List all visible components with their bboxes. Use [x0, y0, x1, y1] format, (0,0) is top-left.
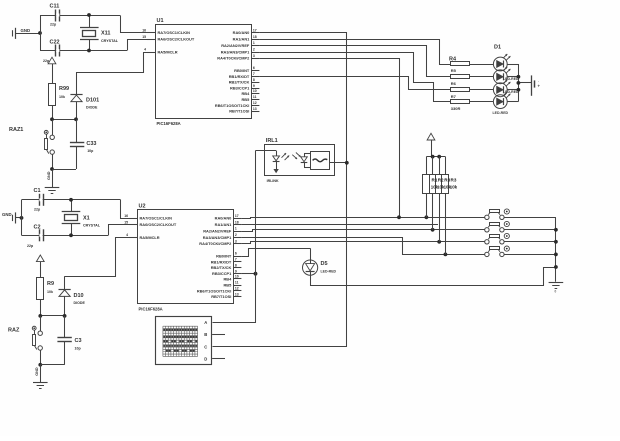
svg-text:13: 13: [253, 107, 257, 111]
svg-text:11: 11: [253, 95, 257, 99]
svg-text:RA2/AN2/VREF: RA2/AN2/VREF: [203, 229, 232, 234]
svg-text:7: 7: [253, 72, 255, 76]
svg-text:RAZ: RAZ: [8, 328, 20, 334]
svg-text:RB2/TX/CK: RB2/TX/CK: [229, 80, 250, 85]
svg-text:R9: R9: [47, 281, 54, 287]
svg-text:RB1/RX/DT: RB1/RX/DT: [211, 259, 232, 264]
svg-text:RAZ1: RAZ1: [9, 127, 23, 133]
svg-text:R2: R2: [438, 177, 444, 182]
svg-text:10k: 10k: [59, 95, 65, 99]
svg-text:15: 15: [142, 35, 146, 39]
svg-text:10: 10: [235, 275, 239, 279]
svg-text:RA1/AN1: RA1/AN1: [215, 222, 232, 227]
svg-text:RA3/AN3/CMP1: RA3/AN3/CMP1: [221, 50, 250, 55]
svg-text:LED-RED: LED-RED: [503, 90, 519, 94]
svg-text:12: 12: [235, 287, 239, 291]
svg-text:1: 1: [253, 41, 255, 45]
svg-text:R5: R5: [451, 68, 457, 73]
svg-text:IRL1: IRL1: [266, 138, 278, 144]
svg-text:4: 4: [144, 48, 146, 52]
svg-text:RB6/T1OSO/T1CKI: RB6/T1OSO/T1CKI: [215, 103, 249, 108]
svg-text:22p: 22p: [50, 23, 57, 27]
svg-text:16: 16: [124, 214, 128, 218]
svg-text:12: 12: [253, 101, 257, 105]
svg-text:R6: R6: [451, 81, 457, 86]
svg-text:LED-RED: LED-RED: [321, 270, 337, 274]
svg-text:RA6/OSC2/CLKOUT: RA6/OSC2/CLKOUT: [158, 37, 195, 42]
svg-text:R7: R7: [451, 94, 457, 99]
svg-text:RB6/T1OSO/T1CKI: RB6/T1OSO/T1CKI: [197, 288, 231, 293]
svg-text:GND: GND: [35, 367, 39, 376]
svg-text:.: .: [538, 78, 539, 83]
svg-text:8: 8: [253, 78, 255, 82]
svg-text:17: 17: [235, 214, 239, 218]
svg-text:330R: 330R: [451, 106, 461, 111]
svg-text:RB0/INT: RB0/INT: [234, 68, 250, 73]
svg-text:IRLINK: IRLINK: [267, 179, 279, 183]
svg-text:C: C: [204, 345, 207, 350]
svg-text:18: 18: [235, 220, 239, 224]
svg-text:1: 1: [235, 227, 237, 231]
svg-text:X1: X1: [83, 215, 90, 221]
svg-text:D5: D5: [321, 261, 328, 267]
svg-text:RB1/RX/DT: RB1/RX/DT: [229, 74, 250, 79]
svg-text:9: 9: [253, 84, 255, 88]
svg-text:10p: 10p: [87, 149, 94, 153]
svg-text:RB7/T1OSI: RB7/T1OSI: [211, 294, 231, 299]
svg-text:3: 3: [253, 54, 255, 58]
svg-text:C22: C22: [50, 40, 60, 46]
svg-text:GND: GND: [21, 28, 31, 33]
svg-text:RA7/OSC1/CLKIN: RA7/OSC1/CLKIN: [158, 30, 191, 35]
svg-text:RA6/OSC2/CLKOUT: RA6/OSC2/CLKOUT: [140, 222, 177, 227]
svg-text:C1: C1: [34, 188, 41, 194]
svg-text:RA5/MCLR: RA5/MCLR: [158, 50, 178, 55]
svg-text:RA2/AN2/VREF: RA2/AN2/VREF: [221, 43, 250, 48]
svg-text:13: 13: [235, 292, 239, 296]
svg-text:15: 15: [124, 220, 128, 224]
svg-text:17: 17: [253, 28, 257, 32]
svg-text:LED-RED: LED-RED: [503, 77, 519, 81]
svg-text:9: 9: [235, 269, 237, 273]
svg-text:11: 11: [235, 281, 239, 285]
svg-text:DIODE: DIODE: [86, 105, 98, 109]
svg-text:RB4: RB4: [242, 91, 251, 96]
svg-text:RB4: RB4: [224, 276, 233, 281]
svg-text:DIODE: DIODE: [74, 301, 86, 305]
svg-text:10: 10: [253, 89, 257, 93]
svg-text:RA7/OSC1/CLKIN: RA7/OSC1/CLKIN: [140, 216, 173, 221]
svg-text:16: 16: [142, 28, 146, 32]
svg-text:C11: C11: [50, 4, 60, 10]
svg-text:X11: X11: [101, 31, 110, 37]
svg-text:GND: GND: [2, 212, 12, 217]
svg-text:RB5: RB5: [224, 283, 233, 288]
svg-text:6: 6: [253, 66, 255, 70]
svg-text:GND: GND: [47, 171, 51, 180]
svg-text:RA1/AN1: RA1/AN1: [233, 37, 250, 42]
svg-text:22p: 22p: [27, 244, 34, 248]
svg-text:3: 3: [235, 239, 237, 243]
svg-text:RA0/AN0: RA0/AN0: [215, 216, 232, 221]
svg-text:CRYSTAL: CRYSTAL: [101, 39, 119, 43]
svg-text:B: B: [204, 332, 207, 337]
svg-text:U1: U1: [157, 18, 164, 24]
svg-text:18: 18: [253, 35, 257, 39]
svg-text:R99: R99: [59, 86, 69, 92]
svg-text:10p: 10p: [75, 346, 82, 350]
svg-text:D10: D10: [74, 293, 84, 299]
svg-text:8: 8: [235, 263, 237, 267]
svg-text:RB5: RB5: [242, 97, 251, 102]
svg-text:C3: C3: [75, 338, 82, 344]
svg-text:22p: 22p: [34, 207, 41, 211]
svg-text:CRYSTAL: CRYSTAL: [83, 224, 101, 228]
svg-text:R3: R3: [451, 177, 457, 182]
svg-text:2: 2: [235, 233, 237, 237]
svg-text:D: D: [204, 356, 207, 361]
svg-text:RB7/T1OSI: RB7/T1OSI: [229, 109, 249, 114]
svg-text:10k: 10k: [47, 290, 53, 294]
svg-text:RA4/T0CKI/CMP2: RA4/T0CKI/CMP2: [217, 56, 250, 61]
svg-text:C33: C33: [86, 141, 96, 147]
svg-text:RA0/AN0: RA0/AN0: [233, 30, 250, 35]
svg-text:U2: U2: [139, 204, 146, 210]
svg-text:RB2/TX/CK: RB2/TX/CK: [211, 265, 232, 270]
svg-text:PIC16F628A: PIC16F628A: [157, 121, 181, 126]
svg-text:A: A: [204, 320, 207, 325]
svg-text:6: 6: [235, 252, 237, 256]
svg-text:0: 0: [555, 290, 557, 294]
svg-text:10k: 10k: [450, 184, 458, 189]
svg-text:RA3/AN3/CMP1: RA3/AN3/CMP1: [203, 235, 232, 240]
svg-text:RA5/MCLR: RA5/MCLR: [140, 235, 160, 240]
svg-text:LED-RED: LED-RED: [493, 111, 509, 115]
svg-text:7: 7: [235, 258, 237, 262]
svg-text:D1: D1: [494, 45, 501, 51]
svg-text:RA4/T0CKI/CMP2: RA4/T0CKI/CMP2: [199, 241, 232, 246]
svg-text:D101: D101: [86, 98, 99, 104]
svg-text:2: 2: [253, 48, 255, 52]
svg-text:4: 4: [126, 233, 128, 237]
svg-text:C2: C2: [34, 225, 41, 231]
svg-text:RB0/INT: RB0/INT: [216, 254, 232, 259]
svg-text:PIC16F628A: PIC16F628A: [139, 307, 163, 312]
